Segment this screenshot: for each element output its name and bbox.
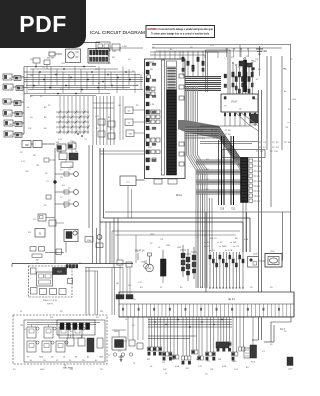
svg-text:F4: F4 xyxy=(228,134,231,136)
svg-text:YW: YW xyxy=(160,239,163,241)
svg-text:B2: B2 xyxy=(252,83,255,85)
svg-text:2R: 2R xyxy=(96,317,99,319)
svg-text:S7: S7 xyxy=(60,197,63,199)
svg-text:P2: P2 xyxy=(96,128,99,130)
svg-text:L6: L6 xyxy=(20,311,23,313)
svg-text:E4: E4 xyxy=(62,185,65,187)
svg-text:R5: R5 xyxy=(284,331,287,333)
svg-text:YW: YW xyxy=(285,127,288,129)
svg-text:G1: G1 xyxy=(118,105,122,107)
svg-text:#bu4: #bu4 xyxy=(176,193,182,197)
svg-text:E4: E4 xyxy=(246,367,249,369)
svg-text:CN1: CN1 xyxy=(112,51,117,53)
svg-text:0.5B: 0.5B xyxy=(175,366,180,368)
svg-text:B2: B2 xyxy=(30,96,33,98)
svg-text:5W: 5W xyxy=(50,317,53,319)
svg-text:CN1: CN1 xyxy=(177,247,182,249)
svg-text:MEAT 14: MEAT 14 xyxy=(135,250,145,253)
svg-text:USA: USA xyxy=(141,261,146,264)
svg-text:0.5B: 0.5B xyxy=(222,366,227,368)
svg-text:1.25: 1.25 xyxy=(95,116,100,118)
svg-text:VA: VA xyxy=(116,282,119,285)
svg-text:B2: B2 xyxy=(288,142,291,144)
svg-text:P2: P2 xyxy=(40,96,43,98)
svg-text:S7: S7 xyxy=(252,71,255,73)
svg-text:5W C3: 5W C3 xyxy=(210,238,217,240)
svg-text:2W: 2W xyxy=(257,201,261,203)
svg-text:1.25: 1.25 xyxy=(210,45,215,47)
svg-text:C3: C3 xyxy=(263,142,267,144)
svg-text:0.5B: 0.5B xyxy=(122,46,127,48)
svg-text:CN1: CN1 xyxy=(25,171,29,173)
svg-text:C3: C3 xyxy=(236,246,240,248)
svg-text:R5: R5 xyxy=(250,287,253,289)
svg-text:R5: R5 xyxy=(231,57,234,59)
svg-text:K8: K8 xyxy=(148,129,151,131)
svg-text:1.25: 1.25 xyxy=(198,366,203,368)
svg-text:(?) M: (?) M xyxy=(231,101,237,104)
svg-text:ALA: ALA xyxy=(57,271,62,274)
svg-text:C3: C3 xyxy=(70,166,72,168)
svg-text:R5: R5 xyxy=(228,130,232,132)
svg-text:G1: G1 xyxy=(33,219,37,221)
svg-text:B2: B2 xyxy=(10,135,12,137)
svg-text:5W: 5W xyxy=(20,325,23,327)
svg-text:S7: S7 xyxy=(256,79,259,81)
svg-text:F4: F4 xyxy=(108,355,111,357)
svg-text:B2: B2 xyxy=(108,117,111,119)
svg-text:R5: R5 xyxy=(20,152,23,154)
svg-text:L6: L6 xyxy=(182,361,185,363)
svg-text:S7: S7 xyxy=(160,287,163,289)
svg-text:WARNING If connected and be le: WARNING If connected and be leakage or p… xyxy=(148,28,214,31)
svg-text:L6: L6 xyxy=(24,329,27,331)
svg-text:GND: GND xyxy=(150,234,155,236)
svg-text:1-007: 1-007 xyxy=(288,369,293,371)
svg-text:P2: P2 xyxy=(27,357,29,359)
svg-text:C3: C3 xyxy=(207,361,211,363)
svg-text:L6: L6 xyxy=(63,357,65,359)
svg-text:C58: C58 xyxy=(220,209,225,211)
svg-text:25d: 25d xyxy=(87,240,91,242)
svg-text:CN1: CN1 xyxy=(292,99,297,101)
svg-text:K8: K8 xyxy=(147,359,150,361)
svg-text:R5: R5 xyxy=(8,102,10,104)
svg-text:P2: P2 xyxy=(276,142,279,144)
svg-text:C52: C52 xyxy=(231,209,236,211)
svg-text:E4: E4 xyxy=(264,51,267,53)
svg-text:R5: R5 xyxy=(60,311,63,313)
svg-text:5W: 5W xyxy=(200,287,203,289)
svg-text:K8: K8 xyxy=(288,109,291,111)
svg-text:C3: C3 xyxy=(68,169,71,171)
svg-text:A1: A1 xyxy=(87,356,89,359)
svg-text:B2: B2 xyxy=(36,260,39,262)
svg-text:S7: S7 xyxy=(220,242,223,244)
svg-text:E4: E4 xyxy=(140,287,143,289)
svg-text:S7: S7 xyxy=(60,170,63,172)
svg-text:R5: R5 xyxy=(270,287,273,289)
svg-text:A1: A1 xyxy=(170,48,173,51)
svg-text:2W: 2W xyxy=(70,369,73,371)
svg-text:P2: P2 xyxy=(136,105,139,107)
svg-text:#8: #8 xyxy=(224,106,227,108)
svg-text:K8: K8 xyxy=(112,57,115,59)
svg-text:K8: K8 xyxy=(108,63,111,65)
svg-text:L6: L6 xyxy=(172,359,175,361)
svg-text:0.5B: 0.5B xyxy=(228,250,233,252)
svg-text:YW: YW xyxy=(148,147,152,149)
svg-text:S7: S7 xyxy=(150,243,153,245)
svg-text:R5: R5 xyxy=(69,360,71,362)
svg-text:1.25: 1.25 xyxy=(138,282,143,284)
svg-text:BR: BR xyxy=(9,124,12,126)
svg-text:CD8: CD8 xyxy=(270,251,275,253)
svg-text:2W: 2W xyxy=(214,130,217,132)
svg-text:S7: S7 xyxy=(263,147,266,149)
svg-text:GND: GND xyxy=(222,246,227,248)
svg-text:2R: 2R xyxy=(68,200,71,202)
svg-text:M: M xyxy=(148,266,150,270)
svg-text:GND: GND xyxy=(232,361,237,363)
svg-text:YW: YW xyxy=(128,134,131,136)
svg-text:G1: G1 xyxy=(205,374,208,376)
svg-text:+=: += xyxy=(287,122,290,124)
svg-text:2R: 2R xyxy=(133,363,136,365)
svg-text:YW: YW xyxy=(19,88,22,90)
svg-text:GND: GND xyxy=(57,152,62,154)
svg-text:K8: K8 xyxy=(45,173,47,175)
svg-text:1.25: 1.25 xyxy=(21,161,26,163)
svg-text:BR: BR xyxy=(33,155,36,157)
svg-text:5W: 5W xyxy=(82,360,85,362)
svg-text:F4.5: F4.5 xyxy=(251,362,256,364)
svg-text:F4: F4 xyxy=(44,205,47,207)
svg-text:L6: L6 xyxy=(165,373,167,375)
svg-text:B2: B2 xyxy=(235,238,238,240)
svg-text:E4: E4 xyxy=(180,287,183,289)
svg-text:B2: B2 xyxy=(44,117,47,119)
svg-text:F4: F4 xyxy=(19,124,21,126)
svg-text:L6: L6 xyxy=(132,325,135,327)
svg-text:CN1: CN1 xyxy=(252,61,257,63)
svg-text:C3: C3 xyxy=(46,181,49,183)
svg-text:GND: GND xyxy=(114,331,119,333)
svg-text:5W: 5W xyxy=(128,285,131,287)
svg-text:YW: YW xyxy=(200,130,203,132)
svg-text:C3: C3 xyxy=(118,351,121,353)
svg-text:B2: B2 xyxy=(19,114,21,116)
svg-text:2W: 2W xyxy=(43,360,46,362)
svg-text:B2: B2 xyxy=(95,360,97,362)
svg-text:2W: 2W xyxy=(95,69,98,71)
svg-text:5W: 5W xyxy=(124,341,127,343)
svg-text:E4: E4 xyxy=(30,360,32,362)
svg-text:E4: E4 xyxy=(75,357,77,359)
svg-text:P2: P2 xyxy=(48,105,51,107)
svg-text:ICAL CIRCUIT DIAGRAM: ICAL CIRCUIT DIAGRAM xyxy=(90,30,145,36)
svg-text:YW: YW xyxy=(252,117,255,119)
svg-text:K8: K8 xyxy=(44,128,47,130)
svg-text:A1: A1 xyxy=(64,206,67,209)
svg-text:L6: L6 xyxy=(158,247,161,249)
svg-text:GND: GND xyxy=(40,369,45,371)
svg-text:B2: B2 xyxy=(44,107,47,109)
svg-text:(k) 44: (k) 44 xyxy=(228,297,235,301)
svg-text:E4: E4 xyxy=(18,103,20,105)
svg-text:B2: B2 xyxy=(18,78,20,80)
svg-text:2R: 2R xyxy=(150,69,153,71)
svg-text:2R: 2R xyxy=(51,357,54,359)
svg-text:1.25: 1.25 xyxy=(234,369,239,371)
svg-text:S7: S7 xyxy=(56,360,58,362)
svg-text:G1: G1 xyxy=(162,362,166,364)
svg-text:1.25: 1.25 xyxy=(58,139,63,141)
svg-text:1-1: 1-1 xyxy=(126,182,130,184)
svg-text:L6: L6 xyxy=(125,319,128,321)
svg-text:1.25: 1.25 xyxy=(150,104,155,106)
svg-text:K8: K8 xyxy=(186,368,189,370)
svg-text:P2: P2 xyxy=(9,114,11,116)
svg-text:XX: XX xyxy=(28,232,31,234)
svg-text:GND: GND xyxy=(39,357,44,359)
svg-text:5W: 5W xyxy=(56,142,59,144)
svg-text:L6: L6 xyxy=(27,107,30,109)
svg-text:C3: C3 xyxy=(84,139,87,141)
svg-text:2R: 2R xyxy=(75,151,78,153)
svg-text:5W: 5W xyxy=(233,242,236,244)
svg-text:A1: A1 xyxy=(284,90,287,93)
svg-text:F4: F4 xyxy=(13,369,16,371)
svg-text:B50 BR: B50 BR xyxy=(47,58,55,60)
svg-text:P2: P2 xyxy=(290,59,293,61)
svg-text:C3: C3 xyxy=(262,351,265,353)
svg-text:C3: C3 xyxy=(212,250,216,252)
svg-text:C3: C3 xyxy=(128,123,131,125)
svg-text:E4: E4 xyxy=(258,69,261,71)
svg-text:BR: BR xyxy=(25,145,29,147)
svg-text:R A D I O S W: R A D I O S W xyxy=(43,299,58,302)
svg-text:L6: L6 xyxy=(9,78,11,80)
svg-text:CN1: CN1 xyxy=(166,245,171,247)
svg-text:G1: G1 xyxy=(128,111,132,113)
svg-text:G1: G1 xyxy=(128,59,132,61)
svg-text:0.5B: 0.5B xyxy=(244,239,249,241)
svg-text:2W: 2W xyxy=(36,165,39,167)
svg-text:A1: A1 xyxy=(98,82,101,85)
svg-text:P2: P2 xyxy=(246,56,249,58)
svg-text:To others parts leakage loss o: To others parts leakage loss on a contro… xyxy=(151,32,210,35)
svg-text:2R: 2R xyxy=(239,109,242,111)
svg-text:5W: 5W xyxy=(260,151,264,153)
svg-text:YW: YW xyxy=(274,151,278,153)
svg-text:G1: G1 xyxy=(30,117,34,119)
svg-text:2R: 2R xyxy=(133,299,136,301)
svg-text:K8: K8 xyxy=(270,344,273,346)
svg-text:E4: E4 xyxy=(202,138,205,140)
svg-text:C3: C3 xyxy=(19,135,21,137)
svg-text:F4: F4 xyxy=(276,147,279,149)
svg-text:B: B xyxy=(39,233,41,236)
svg-text:C3: C3 xyxy=(42,67,46,69)
svg-text:YW: YW xyxy=(163,369,166,371)
svg-text:2W: 2W xyxy=(30,75,33,77)
svg-text:R5: R5 xyxy=(284,69,287,71)
svg-text:R5: R5 xyxy=(110,129,113,131)
svg-text:P2: P2 xyxy=(136,85,139,87)
svg-text:5W: 5W xyxy=(100,311,103,313)
svg-text:R5: R5 xyxy=(100,369,103,371)
svg-text:2W: 2W xyxy=(218,359,221,361)
svg-text:YW: YW xyxy=(210,369,213,371)
svg-text:CD8: CD8 xyxy=(253,254,258,256)
svg-text:5W: 5W xyxy=(60,89,63,91)
svg-text:YW P2: YW P2 xyxy=(47,304,54,306)
svg-text:P2: P2 xyxy=(68,188,71,190)
svg-text:CPU: CPU xyxy=(148,61,154,65)
svg-text:L6: L6 xyxy=(150,366,153,368)
svg-text:C3: C3 xyxy=(10,88,12,90)
svg-text:R5: R5 xyxy=(60,177,63,179)
svg-text:YW: YW xyxy=(28,128,31,130)
svg-text:5W: 5W xyxy=(196,359,199,361)
svg-text:GND: GND xyxy=(99,357,104,359)
svg-text:17B: 17B xyxy=(61,63,65,65)
